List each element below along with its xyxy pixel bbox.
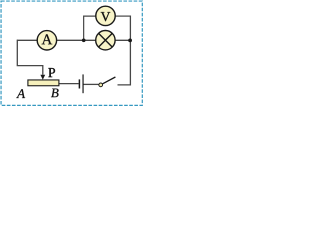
lamp L1 xyxy=(96,31,115,50)
dashed selection border xyxy=(1,1,142,105)
label B (right terminal) xyxy=(51,89,59,98)
wire right vertical down to bottom corner and left to switch contact xyxy=(118,16,131,85)
battery cell negative plate xyxy=(78,79,80,88)
switch lever xyxy=(103,77,116,84)
rheostat R1 body xyxy=(28,80,59,86)
node left junction xyxy=(82,38,86,42)
wire voltmeter branch riser and top left segment xyxy=(84,16,96,40)
switch pivot knob xyxy=(99,83,103,87)
battery cell positive plate xyxy=(82,74,84,93)
label P xyxy=(48,68,55,77)
wire main top run (left corner through ammeter, junction, lamp, to right vertical) xyxy=(17,39,130,41)
wire battery to switch pivot xyxy=(83,83,99,85)
ammeter A1 xyxy=(37,31,56,50)
wire left vertical down and over to slider stem xyxy=(17,40,43,75)
wire rheostat to battery xyxy=(59,83,79,85)
node right junction xyxy=(128,39,132,43)
label A (left terminal) xyxy=(16,89,25,98)
voltmeter V1 xyxy=(96,6,115,25)
background xyxy=(0,0,145,109)
wire voltmeter top right segment xyxy=(115,15,130,17)
rheostat slider arrowhead xyxy=(40,75,45,80)
